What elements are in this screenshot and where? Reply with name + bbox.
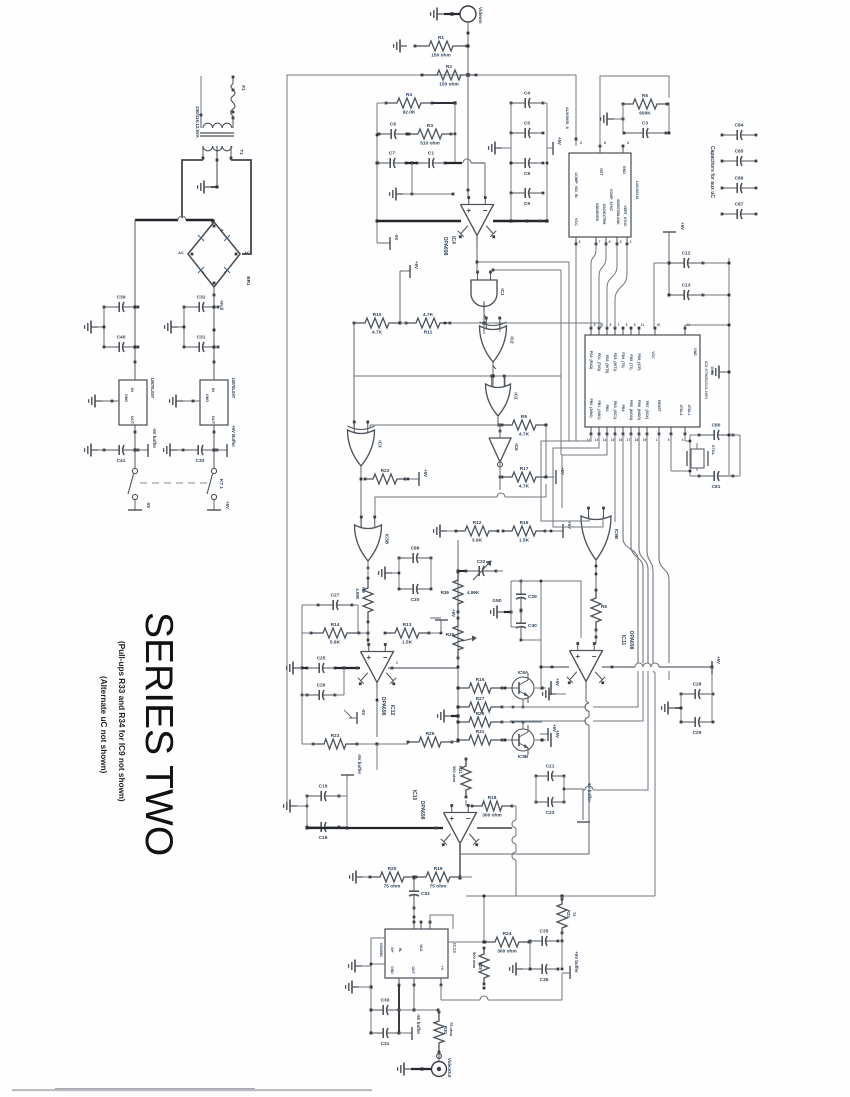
svg-text:GND: GND [492,598,501,603]
wire chain1 out [134,425,136,468]
wire left rail px287 [286,75,288,806]
capacitor C22 variable [458,570,466,572]
svg-text:IC5 AT90S2313-10PI: IC5 AT90S2313-10PI [704,361,709,399]
LM1881 top pins [599,146,601,153]
svg-text:IC2: IC2 [514,392,519,400]
wire secondary left lead [202,146,204,160]
svg-text:COMP_SYNC: COMP_SYNC [609,189,613,212]
fuse F1 [232,76,234,84]
power +5V gates [400,270,410,272]
svg-text:2: 2 [594,323,596,327]
power -5V IC12 [344,710,352,718]
resistor R2 150 ohm [422,70,476,80]
svg-text:AUX5VID_6: AUX5VID_6 [565,107,570,130]
svg-text:4.7K: 4.7K [519,432,530,438]
wire row 323 feedback to at90 [505,323,601,328]
svg-text:IC3: IC3 [378,440,383,448]
svg-text:19: 19 [643,438,647,442]
capacitor C35 [530,940,542,942]
capacitor C80 [699,434,714,436]
IC13 pins top [413,922,415,929]
resistor R5 600K [623,99,667,109]
svg-text:C26: C26 [317,683,326,689]
capacitor C19 [307,795,321,797]
wire thick IC12 plus row [293,667,295,669]
svg-text:C85: C85 [735,149,744,155]
power +5V R22 [412,478,419,480]
wire bridge plus down [213,287,215,330]
svg-text:C86: C86 [735,176,744,182]
power +5V R13 [440,620,442,633]
wire long row270 [493,269,561,271]
ground C41 [91,449,98,451]
svg-text:BR1: BR1 [246,276,251,286]
wire long row262 [477,261,569,263]
svg-text:4: 4 [682,438,684,442]
svg-text:PD1_(TXD): PD1_(TXD) [597,353,601,371]
svg-text:-5V buffer: -5V buffer [152,428,157,449]
capacitor C3 [624,132,643,134]
ground transistors [444,715,451,717]
gate IC2C OR [486,384,511,416]
svg-text:300 ohm: 300 ohm [452,766,457,783]
capacitor C1 [417,162,429,164]
wire sync swap 4 [615,244,627,328]
transistor IC8B [512,729,534,751]
svg-text:C22: C22 [477,559,486,565]
svg-text:+: + [220,228,223,234]
svg-text:SERIES TWO: SERIES TWO [137,612,180,856]
power bar right of caps [552,142,554,155]
regulator IC1 LM79L05 [119,380,147,425]
svg-text:IC11: IC11 [620,635,626,646]
gate IC2B XOR [480,326,507,362]
svg-text:(Alternate uC not shown): (Alternate uC not shown) [99,676,108,774]
svg-text:R12: R12 [473,520,482,526]
svg-text:C23: C23 [546,810,555,816]
svg-text:4.99K: 4.99K [355,588,360,599]
capacitor C20 [399,588,413,590]
svg-text:GS4981: GS4981 [379,943,383,957]
power -5V buffer mid [564,788,576,790]
capacitor C88 [399,557,413,559]
svg-text:150 ohm: 150 ohm [431,53,450,59]
svg-text:XTAL2: XTAL2 [679,405,683,416]
resistor R10 4.7K [354,318,400,328]
svg-text:KT 1: KT 1 [219,479,224,489]
svg-text:IC5B: IC5B [385,534,390,545]
wire bus down 615 [614,434,616,522]
wire row 425 [370,424,502,426]
svg-text:C5: C5 [524,121,530,127]
svg-text:R17: R17 [520,466,529,472]
svg-text:XTAL: XTAL [711,445,716,456]
opamp IC4 OPA698 [461,205,494,236]
svg-text:-5V: -5V [361,709,366,716]
capacitor C4 [511,102,525,104]
wire mid rail down [457,540,459,742]
wire thick C7-C1 row [378,162,380,164]
svg-text:5: 5 [668,438,670,442]
svg-text:C35: C35 [540,929,549,935]
resistor R27 [458,702,502,712]
resistor R3 510 ohm [409,129,451,139]
switch SW1a [132,468,137,473]
svg-text:+5V: +5V [557,137,562,145]
wire IC13 left loop [371,938,385,1033]
ground C33 [170,449,177,451]
resistor R12 3.9K [456,526,498,536]
wire C35 C36 rails [529,941,531,969]
resistor R4 92.0K [386,98,432,108]
resistor R31 [458,735,502,745]
capacitor C33 [183,449,198,451]
wire hld loop [430,915,453,929]
wire inv out [499,463,501,477]
svg-text:510 ohm: 510 ohm [420,141,439,147]
wire IC8A base [522,699,524,707]
svg-text:600K: 600K [639,111,651,117]
wire and to xor [483,312,485,334]
ground C19 [290,805,297,807]
svg-text:300 ohm: 300 ohm [497,949,516,955]
svg-text:C32: C32 [197,295,206,301]
svg-text:18: 18 [635,438,639,442]
svg-text:C33: C33 [196,458,205,464]
svg-text:C87: C87 [735,202,744,208]
wire IC8A to +5V [535,687,546,689]
svg-text:+V: +V [440,966,444,971]
resistor R20 75 ohm [370,872,414,882]
transistor IC8A [512,677,534,699]
wire input node down to opamp [467,75,469,198]
svg-text:11: 11 [641,323,645,327]
svg-text:VERT_SYNC: VERT_SYNC [623,205,627,226]
svg-text:C19: C19 [319,784,328,790]
capacitor C40 [104,346,119,348]
resistor R36 4.99K vertical [453,572,463,612]
svg-text:75: 75 [572,912,577,917]
svg-text:RESET: RESET [657,400,661,413]
ground IC11 [549,693,556,695]
resistor R26 trimmer vertical [453,618,463,658]
svg-text:C25: C25 [317,656,326,662]
crystal X1 [691,449,704,468]
ground C28 [668,707,675,709]
svg-text:GND: GND [390,966,394,974]
svg-text:5.6K: 5.6K [330,640,341,646]
wire row 1010 right [414,1009,436,1011]
wire R1 to node [467,45,468,47]
svg-text:R30: R30 [443,1026,448,1034]
capacitor C28 [681,693,695,695]
wire R10 R11 row [399,322,402,325]
LM1881 bottom pins [575,237,577,244]
svg-text:7: 7 [599,240,601,244]
wire reset long down [659,520,669,663]
svg-text:T1: T1 [239,149,244,155]
svg-text:PB0_(AIN0): PB0_(AIN0) [589,398,593,417]
wire node to ground row [411,163,413,194]
wire rail541 to IC8A [540,667,542,688]
wire thick IC10 row [307,827,443,829]
AT90 bottom pins [590,427,592,434]
capacitor C21 [536,775,548,777]
wire IC12 to bottom [376,744,378,770]
svg-text:92.0K: 92.0K [403,110,416,116]
capacitor C86 [722,187,737,189]
svg-text:C18: C18 [319,835,328,841]
svg-text:+5V: +5V [555,678,560,686]
svg-text:OPA698: OPA698 [380,697,386,716]
svg-text:+5V: +5V [451,609,456,617]
wire IC11 plus input from C30 rail [541,581,581,638]
wire reset down [658,434,660,520]
svg-text:R36: R36 [441,590,450,595]
svg-text:+5V: +5V [414,261,419,269]
svg-text:75 ohm: 75 ohm [449,1022,454,1036]
wire IC10 out [459,844,461,878]
svg-text:OSC/EXTRM: OSC/EXTRM [602,204,606,225]
svg-text:R18: R18 [488,795,497,801]
svg-text:R8: R8 [361,587,366,593]
wire caps col to opamp [510,193,512,221]
svg-text:IC2: IC2 [510,336,515,344]
svg-text:PD6_(ICP): PD6_(ICP) [637,354,641,371]
capacitor C39 [104,306,119,308]
svg-text:PD3_(INT1): PD3_(INT1) [613,353,617,372]
svg-text:IN: IN [211,388,216,392]
svg-text:OUT: OUT [211,416,216,425]
svg-text:1.5K: 1.5K [402,640,413,646]
feedback box R5 C3 [600,76,669,146]
svg-text:GND: GND [622,166,626,175]
wire sync swap 1 [591,244,596,328]
svg-text:8: 8 [579,240,581,244]
resistor R1 150 ohm [415,41,467,51]
wire row 854 to IC10 out [460,853,589,855]
svg-text:R21: R21 [458,766,463,774]
svg-text:R27: R27 [476,696,485,702]
connector VideoOut [432,1062,447,1077]
wire bus pb down 1 [541,434,591,520]
wire sync swap 3 [607,244,617,328]
svg-text:PD4_(T0): PD4_(T0) [621,352,625,367]
ground IC13 left [355,965,362,967]
wire top rail R2 row [287,74,576,76]
svg-text:C21: C21 [546,764,555,770]
svg-text:C27: C27 [331,593,340,599]
svg-text:-5V: -5V [146,502,151,509]
svg-text:20: 20 [657,323,661,327]
svg-text:PB4: PB4 [621,405,625,412]
ground R12 [440,530,447,532]
svg-text:-5V buffer: -5V buffer [357,754,362,775]
svg-text:C81: C81 [712,484,721,490]
power tap -5V buffer [135,449,148,451]
svg-text:C40: C40 [117,335,126,341]
ground C36 [516,968,523,970]
svg-text:6: 6 [604,141,606,145]
svg-text:HLD: HLD [419,945,423,953]
opamp IC10 OPA698 [444,813,477,844]
transformer T1 primary [200,114,203,117]
svg-text:LM79L05T: LM79L05T [150,378,155,399]
svg-text:C4: C4 [524,91,530,97]
wire IC10 minus feedback row [477,827,512,829]
ground regulator IC1 [95,400,102,402]
svg-text:R5: R5 [642,93,648,99]
svg-text:C39: C39 [117,295,126,301]
svg-text:17: 17 [627,438,631,442]
svg-text:XTAL1: XTAL1 [687,405,691,416]
svg-text:R3: R3 [427,123,433,129]
wire row688 to IC8A [502,687,511,689]
svg-text:13: 13 [595,438,599,442]
wire thick DC minus rail [135,219,178,221]
svg-text:OPA698: OPA698 [442,237,448,256]
svg-text:C20: C20 [411,597,420,603]
svg-text:-5V buffer: -5V buffer [416,1014,421,1035]
svg-text:C28: C28 [693,682,702,688]
svg-text:9: 9 [634,323,636,327]
wire R4 row [377,102,386,104]
power -5V buffer C19 [346,775,348,780]
svg-text:R11: R11 [424,330,433,336]
resistor R19b 75 ohm [416,872,460,882]
ground at R1 [400,45,407,47]
resistor R29 [458,717,502,727]
svg-text:R22: R22 [381,468,390,474]
svg-text:C36: C36 [540,977,549,983]
capacitor C6 [379,133,391,135]
capacitor C5 [511,132,525,134]
wire inv in [499,425,501,436]
bridge rectifier BR1 [188,222,240,287]
svg-text:OUT: OUT [130,416,135,425]
svg-text:R1: R1 [438,35,444,41]
ground C5 row [495,147,502,149]
svg-text:Capacitors for aux uC: Capacitors for aux uC [709,146,715,198]
wire secondary center tap [216,146,218,187]
wire row 497 [375,497,497,517]
wire gate5b out [367,561,369,580]
svg-text:PB6_(MISO): PB6_(MISO) [637,400,641,420]
svg-text:OPA698: OPA698 [628,631,634,650]
resistor R8 4.99K vertical [363,578,373,622]
svg-text:C29: C29 [528,594,537,600]
svg-text:R19: R19 [520,520,529,526]
power -5V buffer bottom [411,1027,413,1040]
wire IC11 out down [585,682,587,700]
ground C20 row [385,572,392,574]
gate IC3A XOR left [348,430,375,466]
svg-text:VCC: VCC [651,351,655,359]
transformer T1 core [200,132,234,134]
svg-text:3: 3 [630,240,632,244]
svg-text:R25: R25 [426,731,435,737]
svg-text:150 ohm: 150 ohm [439,82,458,88]
svg-text:R14: R14 [331,622,340,628]
wire gnd pin to rail [684,325,686,328]
svg-text:AC: AC [178,250,184,255]
svg-text:GND: GND [205,394,209,402]
svg-text:5: 5 [620,240,622,244]
power tap +5V buffer [214,449,227,451]
power +5V AT90 [663,231,676,233]
capacitor C36 [530,968,542,970]
wire xor right input to row425 [369,425,371,428]
wire loop right [231,160,251,254]
wire R2 rail to LM1881 [575,75,577,146]
regulator IC2 LM78L05 [200,380,228,425]
wire xor out [492,362,494,386]
svg-text:14: 14 [603,438,607,442]
svg-text:IC9B: IC9B [614,529,619,540]
gate IC5B OR mid [355,525,382,561]
IC3 LM1881 body [569,153,631,237]
svg-text:8: 8 [626,323,628,327]
svg-text:1.5K: 1.5K [519,538,530,544]
svg-text:230/115:12.6VA: 230/115:12.6VA [195,106,200,138]
capacitor C26 [307,694,319,696]
svg-text:4.99K: 4.99K [467,590,480,595]
svg-text:R19: R19 [434,866,443,872]
svg-text:3.9K: 3.9K [472,538,483,544]
svg-text:VideoOut: VideoOut [447,1058,452,1078]
svg-text:R10: R10 [373,312,382,318]
power +5V R17 [546,476,554,478]
svg-text:4.7K: 4.7K [372,330,383,336]
wire bus vertical 569 [568,262,570,441]
svg-text:R26: R26 [446,632,455,638]
svg-text:R29: R29 [476,711,485,717]
wire 516 to row896 [515,878,517,896]
wire xor3 out [360,466,362,527]
capacitor C29 [520,581,522,594]
wire xor left input rail [353,323,355,428]
svg-text:C30: C30 [381,998,390,1004]
wire row263 to vcc rail [654,262,669,264]
svg-text:6: 6 [610,323,612,327]
wire R18 feedback [512,820,516,828]
svg-text:R31: R31 [476,729,485,735]
svg-text:R6: R6 [601,604,607,610]
capacitor C41 [104,449,119,451]
svg-text:R24: R24 [503,931,512,937]
capacitor C25 [307,667,319,669]
svg-text:GND: GND [124,394,128,402]
svg-text:C12: C12 [682,251,691,257]
wire dashed switch link [140,482,212,484]
svg-text:+5V: +5V [680,222,685,230]
wire IC8B to +5V [535,739,546,741]
ground R20 [356,876,363,878]
svg-text:R16: R16 [476,677,485,683]
wire IC4 out to gate [476,250,478,272]
capacitor C32a [184,306,199,308]
svg-text:AC: AC [244,250,250,255]
AT90 top pins [590,328,592,335]
svg-text:PD2_(INT0): PD2_(INT0) [605,355,609,374]
ground VideoOut [404,1068,411,1070]
IC13 body [385,929,448,978]
ground regulator IC2 [176,400,183,402]
svg-text:C30: C30 [528,623,537,629]
svg-text:C84: C84 [735,123,744,129]
resistor R28 500 ohm vertical [479,948,489,984]
svg-text:R20: R20 [388,866,397,872]
